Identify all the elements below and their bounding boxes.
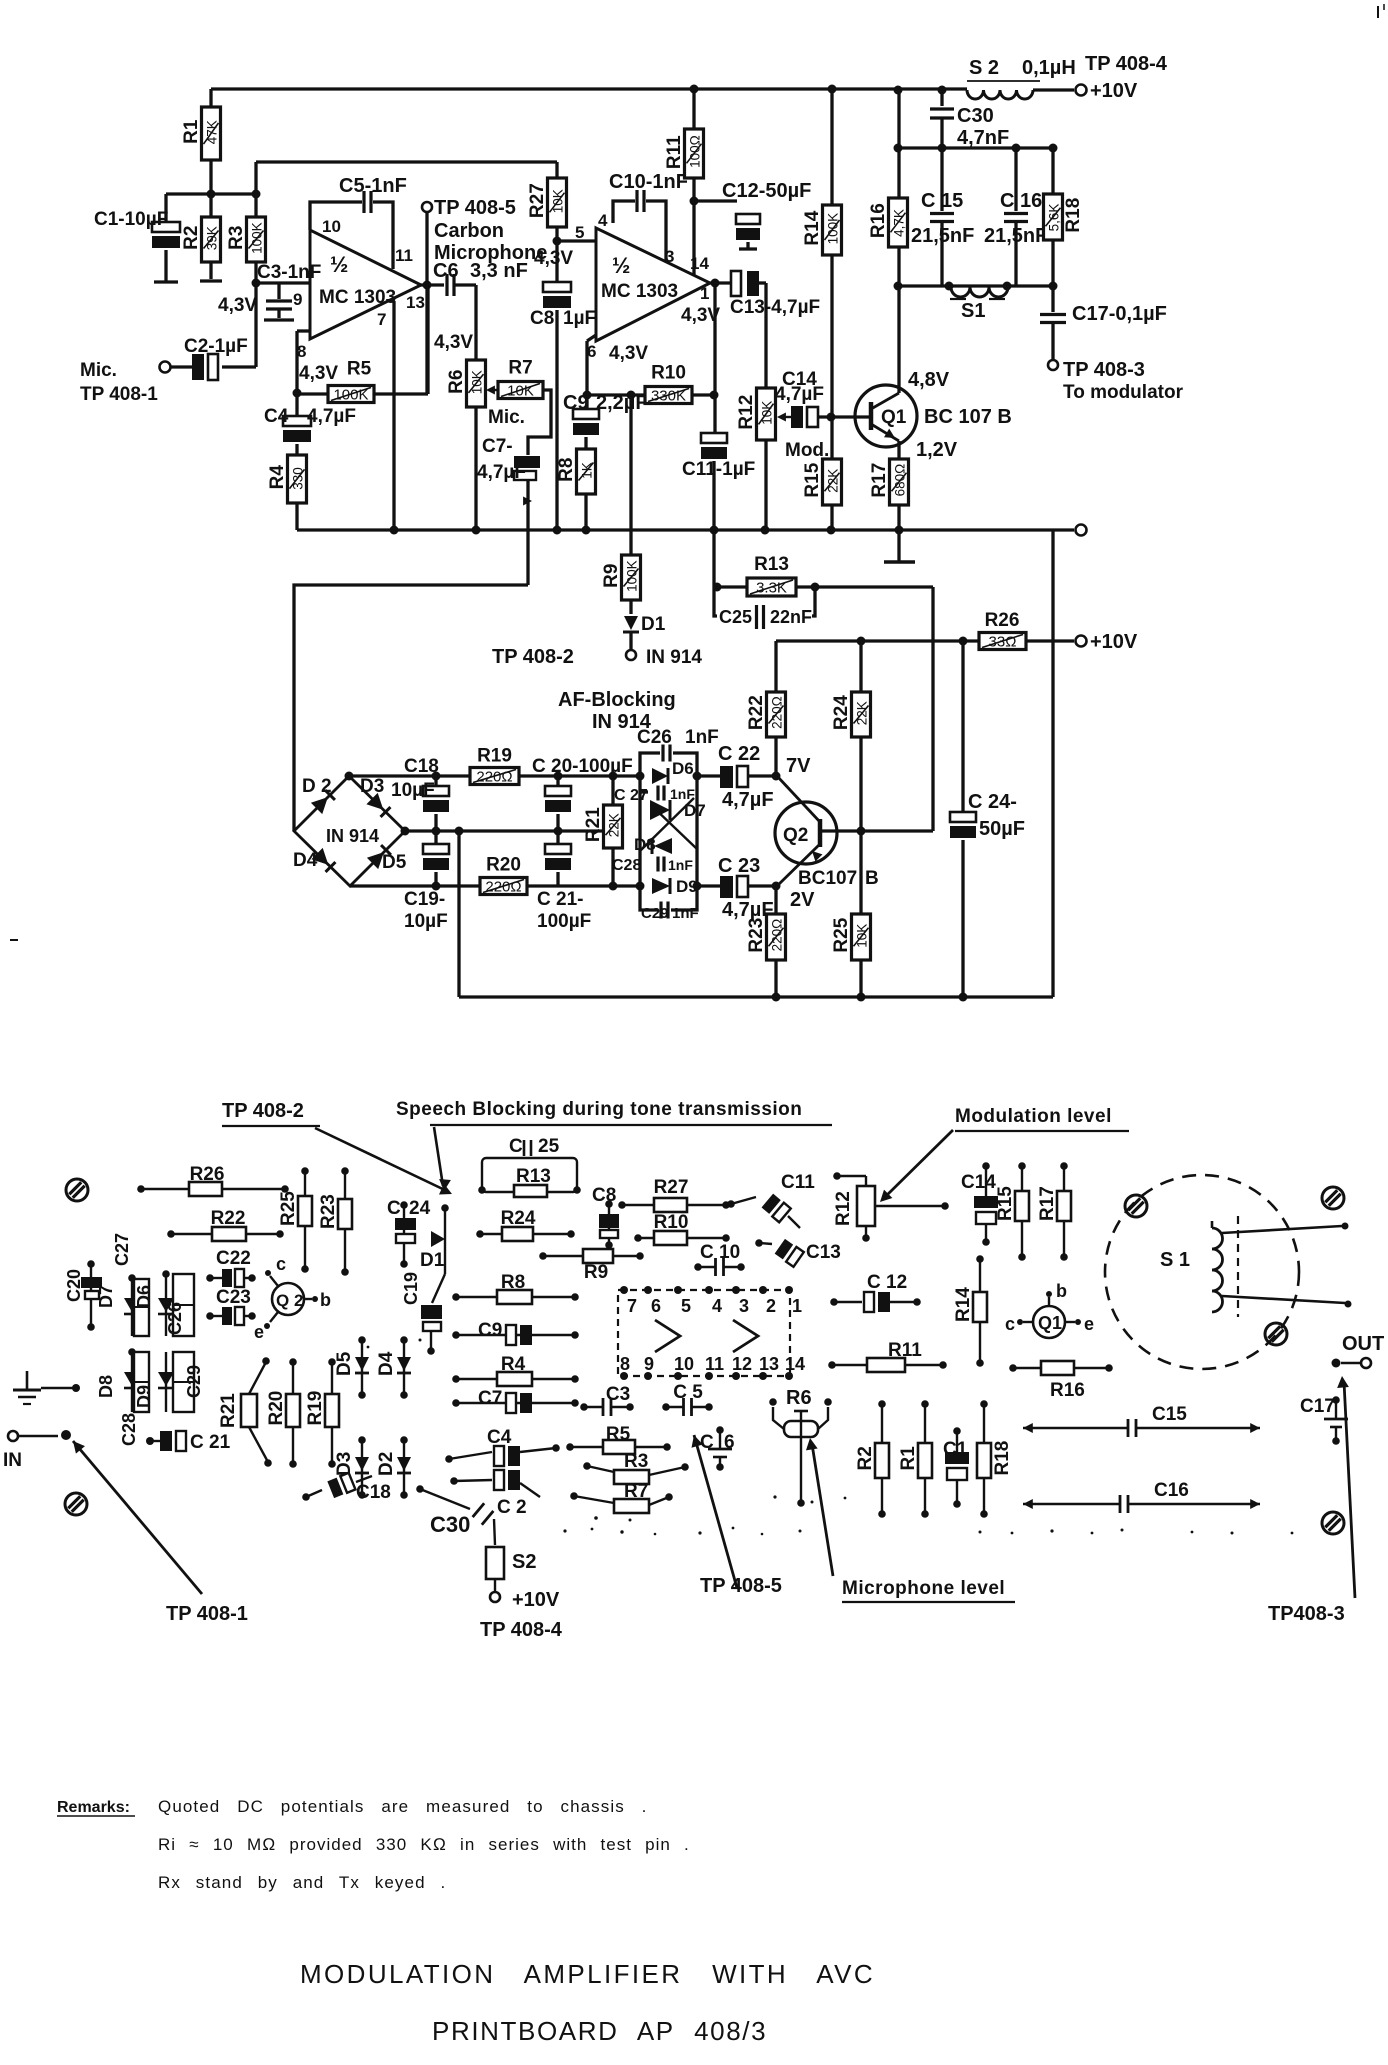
- resistor R7: [498, 358, 551, 456]
- capacitor C9: [563, 392, 648, 449]
- svg-text:100Ω: 100Ω: [688, 135, 703, 168]
- svg-text:S2: S2: [512, 1551, 536, 1573]
- resistor R11: [664, 85, 704, 277]
- svg-text:D8: D8: [96, 1375, 116, 1398]
- svg-text:C27: C27: [112, 1233, 132, 1266]
- label Speech Blocking: [396, 1099, 832, 1191]
- svg-text:R22: R22: [746, 695, 767, 730]
- svg-text:C26: C26: [165, 1302, 185, 1335]
- svg-text:D9: D9: [676, 877, 698, 896]
- svg-text:Rx stand by and Tx keyed .: Rx stand by and Tx keyed .: [158, 1873, 446, 1892]
- pcb diode D7: [96, 1274, 140, 1336]
- svg-text:Speech Blocking during tone tr: Speech Blocking during tone transmission: [396, 1099, 802, 1120]
- pcb resistor R16: [1009, 1361, 1113, 1401]
- pcb resistor R18: [977, 1400, 1013, 1518]
- svg-text:R2: R2: [855, 1446, 876, 1470]
- svg-text:R12: R12: [833, 1191, 854, 1226]
- stray mark: [10, 4, 1384, 940]
- svg-text:100K: 100K: [826, 213, 841, 245]
- svg-text:Remarks:: Remarks:: [57, 1799, 130, 1816]
- svg-text:4,3V: 4,3V: [609, 343, 648, 364]
- pcb resistor R5: [566, 1424, 671, 1454]
- svg-text:R18: R18: [992, 1441, 1013, 1476]
- svg-text:24: 24: [409, 1198, 431, 1219]
- wire diode block edges: [640, 772, 702, 891]
- svg-text:R27: R27: [654, 1177, 689, 1198]
- resistor R6 pot: [446, 360, 486, 530]
- svg-text:4,7µF: 4,7µF: [775, 384, 824, 405]
- pcb resistor R19: [305, 1358, 339, 1468]
- svg-text:C: C: [387, 1198, 401, 1219]
- svg-text:PRINTBOARD AP 408/3: PRINTBOARD AP 408/3: [432, 2016, 767, 2046]
- svg-text:9: 9: [644, 1354, 654, 1374]
- pcb resistor R6 pot: [769, 1387, 832, 1507]
- svg-text:C7: C7: [478, 1388, 502, 1409]
- svg-text:12: 12: [732, 1354, 752, 1374]
- capacitor C16: [984, 148, 1047, 286]
- pcb capacitor C9: [452, 1320, 579, 1345]
- transistor Q1: [855, 369, 1012, 461]
- svg-text:TP 408-2: TP 408-2: [492, 646, 574, 668]
- svg-text:R9: R9: [601, 564, 622, 588]
- label 7V: [786, 755, 811, 777]
- arrow Modulation level: [880, 1106, 1129, 1202]
- svg-text:10K: 10K: [760, 401, 775, 425]
- svg-text:4,7K: 4,7K: [892, 209, 907, 237]
- label 4,3V out2: [681, 305, 720, 326]
- svg-text:25: 25: [538, 1136, 560, 1157]
- svg-text:Quoted DC potentials are measu: Quoted DC potentials are measured to cha…: [158, 1797, 648, 1816]
- capacitor C10 feedback: [609, 171, 688, 262]
- svg-text:C30: C30: [430, 1512, 470, 1537]
- svg-text:OUT: OUT: [1342, 1333, 1384, 1355]
- pcb capacitor C3: [580, 1384, 634, 1416]
- svg-text:R24: R24: [501, 1208, 536, 1229]
- svg-text:C23: C23: [216, 1287, 251, 1308]
- svg-text:D1: D1: [641, 614, 666, 635]
- wire AVC bottom line: [350, 882, 645, 891]
- svg-text:R14: R14: [802, 210, 823, 245]
- test point TP 408-5: [422, 197, 547, 394]
- svg-text:D5: D5: [334, 1351, 355, 1376]
- svg-text:TP 408-4: TP 408-4: [1085, 53, 1168, 75]
- pcb capacitor C7: [452, 1388, 579, 1413]
- pcb resistor R20: [266, 1358, 300, 1468]
- capacitor C5 feedback: [310, 175, 407, 269]
- pcb diode D5: [334, 1336, 369, 1399]
- svg-text:21,5nF: 21,5nF: [984, 225, 1047, 247]
- resistor R22: [746, 641, 786, 776]
- svg-text:R5: R5: [606, 1424, 631, 1445]
- capacitor C18: [391, 756, 449, 831]
- svg-text:C 21-: C 21-: [537, 889, 583, 910]
- capacitor C23: [697, 855, 781, 921]
- capacitor C30: [930, 86, 1009, 150]
- resistor R13: [713, 554, 934, 597]
- svg-text:MC 1303: MC 1303: [319, 287, 396, 308]
- pcb resistor R14: [953, 1255, 987, 1367]
- svg-text:R3: R3: [226, 226, 247, 250]
- ground below Q1: [884, 530, 915, 562]
- pcb capacitor C10: [694, 1242, 745, 1276]
- svg-text:C12-50µF: C12-50µF: [722, 180, 811, 202]
- pcb capacitor C17: [1300, 1396, 1348, 1445]
- pcb capacitor C29: [173, 1352, 204, 1412]
- svg-text:C9: C9: [478, 1320, 502, 1341]
- pcb capacitor C8b: [592, 1185, 619, 1249]
- svg-text:C11: C11: [781, 1172, 815, 1193]
- pcb diode D1: [420, 1204, 449, 1274]
- svg-text:TP 408-4: TP 408-4: [480, 1619, 563, 1641]
- svg-text:C: C: [509, 1136, 523, 1157]
- svg-text:S 1: S 1: [1160, 1249, 1190, 1271]
- ground chassis: [13, 1371, 80, 1404]
- label 4,3V pin13: [434, 332, 473, 353]
- svg-text:TP 408-5: TP 408-5: [700, 1575, 782, 1597]
- pcb resistor R25: [278, 1167, 312, 1273]
- svg-text:680Ω: 680Ω: [893, 464, 908, 497]
- pcb resistor R1: [898, 1400, 932, 1518]
- svg-text:+10V: +10V: [1090, 631, 1138, 653]
- title: [300, 1959, 875, 1989]
- svg-text:MC 1303: MC 1303: [601, 281, 678, 302]
- wire rail2: [256, 162, 557, 178]
- svg-text:C5-1nF: C5-1nF: [339, 175, 407, 197]
- pcb transformer S1: [1105, 1175, 1352, 1369]
- wire AVC left: [294, 585, 528, 831]
- svg-text:1K: 1K: [580, 462, 595, 479]
- pcb capacitor C6: [700, 1426, 735, 1471]
- svg-text:C4: C4: [264, 406, 289, 427]
- svg-text:R16: R16: [868, 203, 889, 238]
- svg-text:4,3V: 4,3V: [299, 363, 338, 384]
- pcb resistor R10b: [634, 1212, 730, 1245]
- svg-text:Microphone: Microphone: [434, 242, 547, 264]
- svg-text:4,7nF: 4,7nF: [957, 127, 1009, 149]
- svg-text:R15: R15: [802, 462, 823, 497]
- resistor R15: [802, 417, 842, 530]
- wire Q1 collector: [894, 86, 903, 394]
- svg-text:2V: 2V: [790, 889, 815, 911]
- svg-text:1nF: 1nF: [672, 905, 699, 922]
- svg-text:47K: 47K: [205, 120, 220, 144]
- label TP 408-2 pcb: [222, 1100, 452, 1194]
- label Mic pot: [488, 407, 525, 428]
- pcb diode D9: [134, 1352, 174, 1412]
- capacitor C13: [730, 271, 820, 388]
- svg-text:Q1: Q1: [881, 407, 907, 428]
- inductor S2: [967, 57, 1076, 99]
- pcb capacitor C19: [401, 1272, 445, 1355]
- capacitor C19: [404, 831, 449, 932]
- resistor R18: [1044, 148, 1085, 286]
- svg-text:C18: C18: [356, 1482, 391, 1503]
- capacitor C28: [612, 857, 693, 875]
- svg-text:1,2V: 1,2V: [916, 439, 958, 461]
- svg-text:100K: 100K: [333, 387, 368, 404]
- svg-text:TP 408-1: TP 408-1: [80, 384, 158, 405]
- resistor R25: [831, 831, 871, 1002]
- svg-text:R19: R19: [305, 1391, 326, 1426]
- svg-text:Microphone level: Microphone level: [842, 1578, 1005, 1599]
- pcb diode D6: [134, 1270, 174, 1336]
- screw hole bottom-left: [65, 1493, 87, 1515]
- wire Q2 base: [820, 829, 933, 832]
- svg-text:R15: R15: [995, 1186, 1016, 1221]
- resistor R27: [527, 178, 567, 246]
- op-amp U1 MC1303: [293, 217, 425, 361]
- pcb capacitor C5: [662, 1382, 713, 1416]
- svg-text:Q2: Q2: [783, 825, 808, 846]
- pcb capacitor C4: [445, 1427, 560, 1466]
- svg-text:R26: R26: [985, 610, 1020, 631]
- svg-text:10µF: 10µF: [404, 911, 448, 932]
- svg-text:R11: R11: [664, 135, 685, 169]
- svg-text:7: 7: [627, 1296, 637, 1316]
- svg-text:C3-1nF: C3-1nF: [257, 262, 321, 283]
- pcb resistor R3: [583, 1451, 689, 1484]
- svg-text:R6: R6: [786, 1387, 812, 1409]
- svg-text:C17: C17: [1300, 1396, 1335, 1417]
- svg-text:C 23: C 23: [718, 855, 760, 877]
- svg-text:Carbon: Carbon: [434, 220, 504, 242]
- svg-text:13: 13: [759, 1354, 779, 1374]
- svg-text:D3: D3: [334, 1452, 355, 1476]
- svg-text:D9: D9: [134, 1385, 154, 1408]
- terminal IN: [3, 1430, 71, 1471]
- svg-text:TP 408-2: TP 408-2: [222, 1100, 304, 1122]
- resistor R17: [869, 441, 909, 530]
- wiper arrow R6: [486, 385, 498, 394]
- svg-text:D2: D2: [376, 1452, 397, 1476]
- pcb capacitor C12: [830, 1272, 921, 1312]
- pcb resistor R7b: [570, 1481, 673, 1513]
- svg-text:4,3V: 4,3V: [218, 295, 257, 316]
- pcb capacitor C30: [416, 1485, 495, 1545]
- svg-text:C 27: C 27: [614, 787, 648, 804]
- arrow TP408-3: [1268, 1376, 1355, 1625]
- resistor R1: [181, 89, 221, 194]
- svg-text:C9: C9: [563, 392, 589, 414]
- svg-text:C8: C8: [530, 308, 554, 329]
- scan speckles: [367, 1339, 1294, 1536]
- svg-text:R20: R20: [266, 1391, 287, 1426]
- svg-text:D4: D4: [376, 1351, 397, 1376]
- pcb resistor R8: [452, 1272, 579, 1304]
- diode D7: [650, 800, 706, 820]
- capacitor C4: [264, 393, 356, 455]
- svg-text:R16: R16: [1050, 1380, 1085, 1401]
- pcb resistor R13: [514, 1166, 551, 1197]
- svg-text:+10V: +10V: [1090, 80, 1138, 102]
- pcb capacitor C21: [146, 1431, 231, 1453]
- screw hole top-right: [1322, 1187, 1344, 1209]
- pcb capacitor C27: [112, 1233, 149, 1336]
- screw hole S1 upper: [1125, 1195, 1147, 1217]
- svg-text:33Ω: 33Ω: [989, 634, 1017, 651]
- resistor R20: [480, 855, 527, 896]
- capacitor C1: [94, 194, 180, 282]
- svg-text:1nF: 1nF: [668, 857, 693, 873]
- svg-text:Mic.: Mic.: [80, 360, 117, 381]
- svg-text:D1: D1: [420, 1250, 445, 1271]
- pcb capacitor C23: [206, 1287, 256, 1325]
- label Mic TP408-1: [80, 360, 158, 405]
- svg-text:b: b: [320, 1290, 331, 1310]
- resistor R9: [601, 395, 641, 614]
- wire R13 to Q2 base: [931, 587, 934, 831]
- capacitor C8: [530, 241, 596, 530]
- svg-text:R10: R10: [651, 363, 686, 384]
- svg-text:D6: D6: [134, 1285, 154, 1308]
- transistor Q2: [775, 776, 879, 889]
- svg-text:4: 4: [598, 211, 608, 230]
- svg-text:C14: C14: [961, 1172, 996, 1193]
- pcb diode D4: [376, 1336, 411, 1399]
- svg-text:Mic.: Mic.: [488, 407, 525, 428]
- svg-text:50µF: 50µF: [979, 818, 1025, 840]
- arrow TP 408-1: [73, 1441, 248, 1625]
- inductor S1: [950, 287, 1008, 322]
- svg-text:4,7µF: 4,7µF: [307, 406, 356, 427]
- svg-text:C 5: C 5: [673, 1382, 703, 1403]
- screw hole bottom-right: [1322, 1512, 1344, 1534]
- svg-text:C10-1nF: C10-1nF: [609, 171, 688, 193]
- svg-text:22nF: 22nF: [770, 607, 812, 627]
- pcb capacitor C14: [961, 1162, 998, 1246]
- svg-text:100K: 100K: [625, 560, 640, 592]
- svg-text:C19: C19: [401, 1272, 421, 1305]
- svg-text:R27: R27: [527, 183, 548, 218]
- pcb capacitor C16 line: [1023, 1480, 1260, 1513]
- capacitor C21: [537, 831, 591, 932]
- svg-text:D4: D4: [293, 850, 318, 871]
- svg-text:C22: C22: [216, 1248, 251, 1269]
- pcb diode D2: [376, 1436, 411, 1499]
- capacitor C2: [160, 283, 257, 380]
- diode bridge D2-D5: [293, 776, 407, 886]
- capacitor C22: [697, 743, 781, 811]
- svg-text:C16: C16: [1154, 1480, 1189, 1501]
- svg-text:330K: 330K: [651, 388, 686, 405]
- svg-text:5: 5: [575, 223, 584, 242]
- svg-text:C19-: C19-: [404, 889, 445, 910]
- svg-text:C 22: C 22: [718, 743, 760, 765]
- svg-text:330: 330: [291, 467, 306, 490]
- op-amp U2 MC1303: [587, 211, 710, 361]
- svg-text:4,3V: 4,3V: [534, 248, 573, 269]
- capacitor C14: [775, 369, 871, 428]
- svg-text:R23: R23: [318, 1194, 339, 1229]
- svg-text:C 12: C 12: [867, 1272, 907, 1293]
- svg-text:TP 408-5: TP 408-5: [434, 197, 516, 219]
- screw hole S1 lower: [1265, 1323, 1287, 1345]
- svg-text:IN 914: IN 914: [646, 647, 702, 668]
- svg-text:R21: R21: [218, 1393, 239, 1428]
- svg-text:11: 11: [395, 246, 413, 265]
- terminal TP 408-3: [1063, 359, 1184, 403]
- pcb capacitor C2: [450, 1470, 540, 1518]
- svg-text:C8: C8: [592, 1185, 616, 1206]
- svg-text:3.3K: 3.3K: [756, 580, 787, 597]
- svg-text:S 2: S 2: [969, 57, 999, 79]
- svg-text:IN 914: IN 914: [326, 826, 379, 846]
- svg-text:R18: R18: [1063, 198, 1084, 233]
- svg-text:R2: R2: [181, 226, 202, 250]
- svg-text:0,1µH: 0,1µH: [1022, 57, 1076, 79]
- svg-text:C13-4,7µF: C13-4,7µF: [730, 297, 820, 318]
- diode D1: [623, 614, 702, 668]
- wire AVC right vertical: [1051, 530, 1054, 997]
- svg-text:R21: R21: [583, 807, 604, 842]
- wire node row y194: [166, 190, 261, 199]
- label 4,3V node: [218, 295, 257, 316]
- capacitor C11: [682, 283, 755, 530]
- svg-text:c: c: [1005, 1314, 1015, 1334]
- svg-text:100µF: 100µF: [537, 911, 591, 932]
- pcb capacitor C28: [119, 1352, 149, 1446]
- svg-text:BC 107 B: BC 107 B: [924, 406, 1012, 428]
- svg-text:1: 1: [700, 284, 709, 303]
- wire filter bottom rail: [898, 282, 1058, 291]
- remarks text: [57, 1797, 690, 1892]
- svg-text:R24: R24: [831, 695, 852, 730]
- arrow TP 408-5: [692, 1435, 782, 1597]
- capacitor C29: [640, 886, 699, 922]
- svg-text:10µF: 10µF: [391, 780, 435, 801]
- svg-text:21,5nF: 21,5nF: [911, 225, 974, 247]
- svg-text:C28: C28: [612, 857, 641, 874]
- wire pin7: [392, 301, 395, 530]
- resistor R24: [831, 641, 871, 836]
- diode D6: [652, 759, 694, 784]
- svg-text:1: 1: [792, 1296, 802, 1316]
- svg-text:7V: 7V: [786, 755, 811, 777]
- svg-text:TP 408-3: TP 408-3: [1063, 359, 1145, 381]
- svg-text:R13: R13: [754, 554, 789, 575]
- svg-text:B: B: [865, 868, 879, 889]
- svg-text:5: 5: [681, 1296, 691, 1316]
- svg-text:4,7µF: 4,7µF: [722, 789, 774, 811]
- svg-text:R22: R22: [211, 1208, 246, 1229]
- svg-text:MODULATION AMPLIFIER WITH AVC: MODULATION AMPLIFIER WITH AVC: [300, 1959, 875, 1989]
- svg-text:10K: 10K: [551, 189, 566, 213]
- pcb resistor R24: [476, 1208, 575, 1241]
- pcb resistor R21: [218, 1357, 272, 1467]
- svg-text:2: 2: [766, 1296, 776, 1316]
- wire pin6: [583, 335, 597, 400]
- svg-text:R25: R25: [831, 917, 852, 952]
- pcb resistor R27b: [618, 1177, 730, 1212]
- svg-text:C30: C30: [957, 105, 994, 127]
- svg-text:C26: C26: [637, 727, 672, 748]
- svg-text:4,8V: 4,8V: [908, 369, 950, 391]
- label TP 408-2: [492, 646, 574, 668]
- pcb resistor R15: [995, 1162, 1029, 1261]
- svg-text:C7-: C7-: [482, 436, 513, 457]
- svg-text:C15: C15: [1152, 1404, 1187, 1425]
- svg-text:e: e: [254, 1322, 264, 1342]
- capacitor C26: [637, 727, 719, 776]
- node bridge top: [345, 772, 354, 781]
- svg-text:R17: R17: [869, 463, 890, 498]
- svg-text:C25: C25: [719, 607, 752, 627]
- pcb capacitor C18: [302, 1473, 391, 1503]
- node out2: [710, 279, 731, 288]
- pcb resistor R23: [318, 1167, 352, 1276]
- svg-text:R7: R7: [508, 358, 532, 379]
- pcb inductor S2: [480, 1547, 563, 1641]
